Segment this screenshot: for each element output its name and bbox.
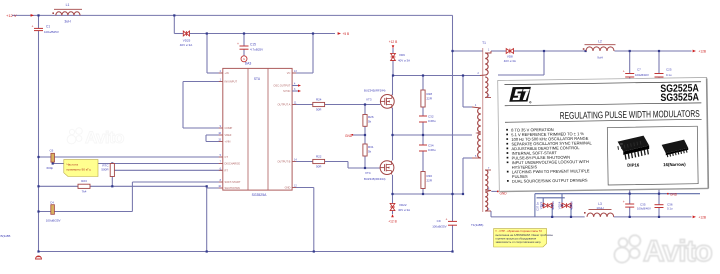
transistor VT4 MOSFET [380,161,394,175]
label R22 [316,155,322,159]
wire secondary bottom pin [490,211,492,217]
svg-text:0.68u: 0.68u [428,119,436,123]
capacitor C15 [237,42,248,49]
value VD8 40V 3A [504,59,516,63]
capacitor C34 [419,145,427,151]
ground connector symbol bottom left [36,256,42,259]
net label +12V output [693,216,706,220]
svg-text:16(Narrow): 16(Narrow) [663,162,686,167]
transformer T1 [472,48,491,212]
svg-text:SOFT-START: SOFT-START [225,180,241,184]
svg-text:VD9: VD9 [399,53,405,57]
value L3 10uH [596,206,603,210]
svg-text:DA3: DA3 [245,62,252,66]
svg-text:OSC.OUTPUT: OSC.OUTPUT [273,84,290,88]
wire left vertical bus to ground [38,157,40,252]
diode VD23 rectifier [543,203,552,208]
svg-text:CT: CT [225,155,229,159]
wire output B to gate VT4 [292,162,380,169]
svg-text:выполнена на АЛЮМИНИИ. Имеет п: выполнена на АЛЮМИНИИ. Имеет проблемы [496,233,553,237]
svg-text:R24: R24 [316,98,322,102]
wire VD22 branch [392,194,394,214]
svg-text:SYNC: SYNC [283,89,290,93]
pin labels left with pin numbers [218,70,240,190]
value C4 100u/25V [46,218,61,222]
svg-text:C7: C7 [637,68,641,72]
wire RT [112,169,223,171]
svg-text:+12 B: +12 B [389,40,397,44]
wire CT [39,156,223,158]
wire RTC bottom [111,177,113,187]
label C36 [667,202,673,206]
package sub-box [607,126,698,185]
svg-text:R31: R31 [368,145,374,149]
svg-text:C4: C4 [50,200,54,204]
svg-text:INV.INPUT: INV.INPUT [225,80,238,84]
label VD9 [399,53,405,57]
wire GND stub mid [353,134,366,136]
wire C7 drop [629,51,631,80]
value L2 9uH [597,56,603,60]
datasheet frame top line [504,82,701,85]
inductor L1 [52,9,82,15]
net label +12V at VD22 [388,214,396,224]
svg-text:0.68u: 0.68u [428,148,436,152]
svg-text:Частота: Частота [67,162,79,166]
svg-text:40V 3A: 40V 3A [570,201,574,210]
faint ghost watermark tile [67,128,124,147]
svg-text:R30: R30 [427,174,433,178]
svg-text:R26: R26 [368,115,374,119]
label VD22 [399,203,407,207]
capacitor C1 [32,24,43,30]
net label +5V arrow [338,32,350,36]
resistor R22 [313,159,325,163]
value VT4 part [364,177,386,181]
svg-text:100uB/40V: 100uB/40V [635,73,649,77]
svg-text:DISCHARGE: DISCHARGE [225,162,241,166]
note PCB annotation [494,229,553,247]
svg-text:7k4: 7k4 [82,190,87,194]
svg-text:зависимость от сопротивления н: зависимость от сопротивления нагр. [496,241,542,244]
pin labels right with pin numbers [273,70,297,190]
value C32 [428,119,436,123]
datasheet header separator line [505,103,702,106]
resistor R23 [78,184,90,188]
capacitor C35 [623,200,634,207]
wire C35 drop [629,189,631,217]
svg-text:4.7uB25V: 4.7uB25V [250,48,263,52]
value VD22 40V 3A [398,208,410,212]
svg-text:100uB/25V: 100uB/25V [46,218,61,222]
wire gate divider bottom [364,135,366,168]
svg-text:C9: C9 [437,219,441,223]
value VD9 40V 3A [398,59,410,63]
svg-text:40V ⌀ 3A: 40V ⌀ 3A [504,59,516,63]
label L2 [598,40,602,44]
svg-text:R23: R23 [81,179,87,183]
wire snubber chain [422,76,424,195]
svg-text:BUZ345(IRFZ44): BUZ345(IRFZ44) [364,177,386,181]
osc output stub arrow pin 4 [292,84,301,86]
svg-text:L1: L1 [66,3,70,7]
Avito watermark logo circles [0,0,1,1]
datasheet feature bullet list [506,129,508,131]
wire primary bottom jog [463,158,472,194]
label C35 [640,202,646,206]
label L3 [598,202,602,206]
wire VT4 source [392,175,394,194]
capacitor C25 [655,74,664,78]
wire DISCHARGE [53,163,223,165]
value R23 7k4 [82,190,87,194]
svg-text:+12B: +12B [699,50,707,54]
wire C1 branch vertical [38,15,40,157]
pin stubs right [292,73,296,188]
svg-text:SHUTDOWN: SHUTDOWN [225,186,240,190]
value C35 100u/40V [637,206,651,210]
capacitor C9 [446,217,457,225]
wire gate divider top [364,105,366,136]
label C32 [428,115,434,119]
svg-text:OUTPUT B: OUTPUT B [277,160,290,164]
DIP16 package drawing [618,136,650,152]
svg-text:0.1u: 0.1u [666,73,672,77]
value VD24 [570,201,574,210]
svg-text:3uH: 3uH [64,20,71,24]
SO16 package drawing [662,140,689,154]
wire rectifier rail A [535,193,700,195]
wire midpoint rail to primary [393,134,473,136]
svg-text:COMP: COMP [225,126,233,130]
svg-text:B(3x8B: B(3x8B [1,234,11,238]
label C15 [250,43,256,47]
svg-text:+5 B: +5 B [343,32,350,36]
value R22 50R [316,165,322,169]
wire +VIN feedback loop [206,135,223,142]
label R30 [427,174,433,178]
resistor R31 [363,144,367,156]
svg-text:40V 3A: 40V 3A [551,201,555,210]
svg-text:9uH: 9uH [597,56,603,60]
value C1 100u/25V [44,30,59,34]
wire output A to gate VT3 [292,104,380,106]
svg-text:C1: C1 [46,25,50,29]
svg-text:5k: 5k [368,120,372,124]
value C15 4.7u [250,48,263,52]
transformer pin numbers [475,49,490,211]
svg-text:22R: 22R [427,97,433,101]
svg-text:VD22: VD22 [399,203,407,207]
datasheet inset page [498,77,709,191]
wire right tall vertical [452,15,454,251]
value RTC 500R [101,168,109,172]
net label +12V top right [693,50,706,54]
svg-text:OUTPUT A: OUTPUT A [277,103,290,107]
value VD23 [551,201,555,210]
svg-text:VD24: VD24 [558,201,562,209]
svg-text:горения процесса оборудования: горения процесса оборудования [496,236,537,240]
label bottom left winding note [1,234,11,238]
svg-text:T1(3x8B): T1(3x8B) [471,223,483,227]
resistor R24 [313,102,325,106]
wire INV input loop [183,82,223,129]
svg-text:50R: 50R [316,165,322,169]
wire secondary supply rail [174,33,335,35]
wire VC pin feed [292,34,313,74]
svg-text:SG3525A: SG3525A [252,193,267,197]
value R30 22R [427,179,433,183]
wire under-box stub [498,51,544,75]
label L1 [66,3,70,7]
wire soft-start route [39,182,223,212]
svg-text:C32: C32 [428,115,434,119]
svg-text:1: 1 [488,49,490,51]
svg-text:+: + [623,200,625,204]
svg-text:+: + [446,217,448,221]
label R31 [368,145,374,149]
ground symbol analog near C15 [241,56,247,62]
note frequency annotation [64,160,98,177]
wire ground bus [39,251,453,253]
wire secondary pin GND stub [491,190,498,192]
label VD24 [558,201,562,209]
value C6 600p [47,166,54,170]
resistor R28 snubber [421,90,425,107]
value T1 winding spec [471,223,483,227]
svg-text:VC: VC [287,71,291,75]
capacitor C6 timing [51,153,55,162]
diode VD8 [506,49,513,54]
svg-text:C15: C15 [250,43,256,47]
wire VT4 drain [392,135,394,160]
svg-text:GND: GND [670,192,678,196]
svg-text:+12B: +12B [699,216,707,220]
datasheet title underline [505,119,702,122]
label R23 [81,179,87,183]
value R24 50R [316,108,322,112]
capacitor C4 [51,205,55,215]
value C34 [428,148,436,152]
inductor L3 [584,210,614,217]
value R31 5k [368,150,372,154]
wire output rail bottom [491,216,692,218]
value C36 0.1u [667,206,673,210]
resistor R30 snubber [421,172,425,189]
transistor VT3 MOSFET [380,95,394,109]
svg-text:100uB/25V: 100uB/25V [432,225,446,229]
svg-text:C6: C6 [50,148,54,152]
wire rectifier rail B [537,197,565,199]
inductor L2 [583,45,616,51]
net label GND mid [345,134,353,138]
wire rectifier left vertical [534,194,536,217]
wire lower rail [393,193,464,195]
label VD23 [539,201,543,209]
label STU [254,77,261,81]
diode VD9 [391,53,396,60]
wire secondary top left stub [453,50,484,52]
svg-text:Avito: Avito [85,128,124,147]
svg-text:40V ⌀ 3A: 40V ⌀ 3A [398,59,410,63]
wire center rail [393,75,480,77]
svg-text:+VIN: +VIN [225,140,231,144]
svg-text:+: + [32,24,34,28]
wire VD9 branch [392,48,394,76]
label C6 [50,148,54,152]
wire COMP [183,127,223,129]
svg-text:STU: STU [254,77,261,81]
wire primary top jog [463,76,472,108]
pin stubs left [219,73,223,188]
label C34 [428,144,434,148]
wire shutdown to ground [206,186,208,251]
svg-text:!! - ОТР - обратная сторона пл: !! - ОТР - обратная сторона платы Т2 [496,229,543,233]
value R28 22R [427,97,433,101]
svg-text:+: + [623,70,625,74]
svg-text:DIP16: DIP16 [627,162,640,167]
label VT3 [366,98,372,102]
wire secondary top to VD8 [491,50,586,52]
value R26 5k [368,120,372,124]
label C4 [50,200,54,204]
net label +12V at VD9 [389,40,397,49]
capacitor C36 [655,205,664,208]
resistor RTC [110,164,114,177]
svg-text:C34: C34 [428,144,434,148]
diode VD22 [390,203,395,210]
value C9 100u/25V [432,225,446,229]
label C9 [437,219,441,223]
label VD8 [507,55,513,59]
svg-text:VD23: VD23 [539,201,543,209]
label C25 [666,68,672,72]
label C1 [46,25,50,29]
capacitor C7 [623,70,634,78]
svg-text:примерно 90 кГц: примерно 90 кГц [67,167,91,171]
wire VT3 drain [392,76,394,96]
label R24 [316,98,322,102]
net label GND secondary [497,191,507,196]
svg-text:RT: RT [225,168,229,172]
svg-text:500R: 500R [101,168,109,172]
svg-text:22R: 22R [427,179,433,183]
svg-text:BUZ345(IRFZ44): BUZ345(IRFZ44) [364,89,386,93]
svg-text:4: 4 [475,105,477,107]
op-amp U1 SG3525A PWM controller body [223,68,292,190]
wire VREF [206,134,223,136]
resistor R26 [363,115,367,127]
svg-text:600p: 600p [47,166,54,170]
svg-text:10uH: 10uH [596,206,603,210]
net label GND output [667,192,678,196]
svg-text:40V ⌀ 3A: 40V ⌀ 3A [398,208,410,212]
svg-text:T1: T1 [482,41,486,45]
label T1 [482,41,486,45]
svg-text:VT4: VT4 [365,171,371,175]
diode VD25 [183,31,189,36]
wire VD25 feed vertical [173,15,175,33]
svg-text:100uB/40V: 100uB/40V [637,206,651,210]
wire VIN pin feed [207,34,223,74]
wire R23 net [39,185,207,187]
value C7 100u/40V [635,73,649,77]
svg-text:VREF: VREF [225,133,232,137]
wire shutdown stub [207,187,223,189]
svg-text:GND: GND [285,186,291,190]
value VD25 40V 3A [180,43,192,47]
svg-text:R28: R28 [427,92,433,96]
svg-text:0.1u: 0.1u [667,206,673,210]
svg-text:C37 1n: C37 1n [535,202,539,211]
label SG3525A [252,193,267,197]
wire C15 branch [243,34,245,57]
label VT4 [365,171,371,175]
svg-text:100u/B25V: 100u/B25V [44,30,59,34]
sync stub arrow pin 3 [292,90,301,92]
svg-text:Avito: Avito [643,235,713,268]
value VT3 part [364,89,386,93]
ST logo [509,87,531,102]
svg-text:+: + [237,42,239,46]
svg-text:+12 B: +12 B [388,220,396,224]
wire VT3 source to midpoint [392,108,394,135]
svg-text:R22: R22 [316,155,322,159]
label RTC [102,164,109,168]
capacitor C32 [419,116,427,122]
label C7 [637,68,641,72]
wire C36 drop [658,188,660,217]
svg-text:5k: 5k [368,150,372,154]
label R28 [427,92,433,96]
svg-text:50R: 50R [316,108,322,112]
label C37 snubber cap [535,202,539,211]
wire IC GND pin to bus [292,188,314,252]
diode VD24 rectifier [562,203,571,208]
label DA3 [245,62,252,66]
value C25 0.1u [666,73,672,77]
wire L2 to output [614,50,691,52]
svg-text:L2: L2 [598,40,602,44]
svg-text:VT3: VT3 [366,98,372,102]
wire +12V input rail (top) [12,14,453,16]
wire C25 drop [658,51,660,80]
svg-text:40V ⌀ 3A: 40V ⌀ 3A [180,43,192,47]
svg-text:+12 V: +12 V [6,13,17,18]
svg-text:+IN: +IN [225,71,229,75]
wire rectifier mesh [543,194,571,217]
label R26 [368,115,374,119]
svg-text:SG3525A: SG3525A [660,91,699,104]
svg-text:C25: C25 [666,68,672,72]
value L1 3uH [64,20,71,24]
svg-text:2: 2 [478,73,480,75]
net label +12 V input [6,13,34,18]
label VD25 [183,39,191,43]
